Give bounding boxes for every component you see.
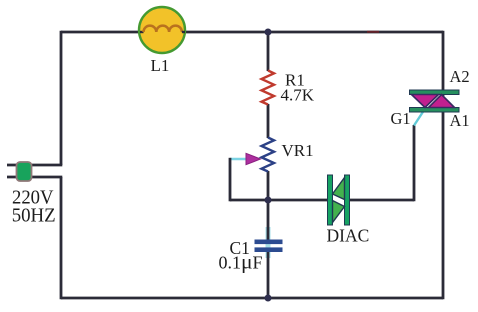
AC source plug 220V (17, 162, 32, 181)
svg-text:50HZ: 50HZ (12, 206, 56, 227)
wire left rail upper (60, 31, 63, 165)
diac (328, 175, 350, 225)
VR1 wiper arrow (246, 153, 261, 164)
wire middle branch VR1 to capacitor (267, 171, 270, 240)
wire VR1 wiper loop vertical (229, 158, 232, 202)
wire middle branch between R1 and VR1 (267, 104, 270, 138)
wire node to diac (268, 199, 328, 202)
wire top rail (61, 31, 443, 34)
wire VR1 wiper loop horizontal (230, 199, 268, 202)
wire source top stub (7, 164, 62, 167)
wire diac to gate riser horizontal (349, 199, 414, 202)
triac (410, 90, 460, 112)
wire gate riser vertical (413, 125, 416, 201)
svg-text:L1: L1 (151, 56, 170, 75)
wire left rail lower (60, 177, 63, 299)
node middle junction (265, 197, 272, 204)
wire capacitor cyan highlight halo (266, 227, 271, 258)
wire capacitor bottom lead (267, 251, 270, 298)
svg-text:G1: G1 (391, 109, 411, 128)
wire middle branch R1 top lead (267, 32, 270, 71)
wire VR1 wiper cyan segment (230, 158, 247, 160)
wire top rail red artifact segment (367, 31, 379, 33)
node top junction (265, 29, 272, 36)
lamp L1 (139, 7, 185, 53)
wire right rail (442, 31, 445, 300)
potentiometer VR1 (262, 138, 275, 172)
wire bottom rail (61, 297, 443, 300)
svg-text:A1: A1 (450, 111, 470, 130)
resistor R1 (262, 71, 275, 105)
svg-text:4.7K: 4.7K (281, 86, 315, 105)
wire source bottom stub (7, 176, 62, 179)
wire gate cyan diagonal (414, 110, 425, 126)
svg-text:A2: A2 (450, 67, 470, 86)
capacitor C1 (255, 240, 283, 253)
svg-text:VR1: VR1 (282, 141, 314, 160)
svg-text:DIAC: DIAC (327, 226, 370, 246)
svg-text:0.1μF: 0.1μF (219, 250, 263, 274)
node bottom junction (265, 295, 272, 302)
